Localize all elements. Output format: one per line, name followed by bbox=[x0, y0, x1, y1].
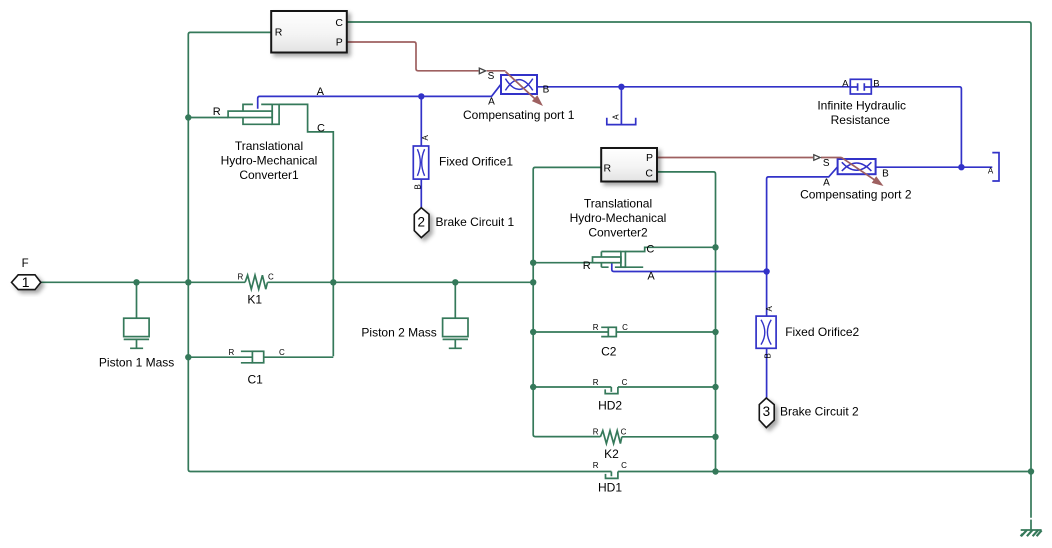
svg-text:Resistance: Resistance bbox=[831, 113, 891, 127]
svg-text:R: R bbox=[213, 106, 221, 118]
svg-text:A: A bbox=[823, 177, 830, 188]
svg-text:K2: K2 bbox=[604, 447, 619, 461]
svg-text:B: B bbox=[764, 353, 773, 358]
svg-text:C: C bbox=[317, 122, 325, 134]
svg-text:A: A bbox=[488, 97, 495, 108]
svg-text:Brake Circuit 2: Brake Circuit 2 bbox=[780, 404, 859, 418]
svg-text:F: F bbox=[22, 258, 29, 270]
svg-text:Fixed Orifice1: Fixed Orifice1 bbox=[439, 155, 513, 169]
svg-text:R: R bbox=[275, 27, 283, 39]
svg-text:C: C bbox=[645, 168, 653, 180]
svg-text:R: R bbox=[593, 378, 599, 387]
svg-text:Hydro-Mechanical: Hydro-Mechanical bbox=[570, 211, 667, 225]
svg-text:B: B bbox=[873, 78, 879, 89]
svg-text:A: A bbox=[765, 306, 774, 312]
svg-text:A: A bbox=[647, 270, 655, 282]
svg-text:C2: C2 bbox=[601, 345, 617, 359]
svg-text:B: B bbox=[414, 184, 423, 189]
svg-text:Converter1: Converter1 bbox=[239, 168, 299, 182]
svg-text:3: 3 bbox=[763, 404, 771, 419]
svg-text:C: C bbox=[646, 244, 654, 256]
svg-text:A: A bbox=[611, 114, 620, 120]
svg-text:Infinite Hydraulic: Infinite Hydraulic bbox=[817, 98, 906, 112]
svg-text:Compensating port 2: Compensating port 2 bbox=[800, 187, 912, 201]
svg-text:HD1: HD1 bbox=[598, 481, 622, 495]
svg-text:R: R bbox=[229, 348, 235, 357]
svg-text:A: A bbox=[317, 86, 325, 98]
svg-text:Piston 1 Mass: Piston 1 Mass bbox=[99, 355, 174, 369]
svg-text:Translational: Translational bbox=[235, 139, 303, 153]
svg-text:2: 2 bbox=[417, 215, 425, 230]
svg-text:Piston 2 Mass: Piston 2 Mass bbox=[361, 325, 436, 339]
svg-text:R: R bbox=[583, 260, 591, 272]
svg-text:Compensating port 1: Compensating port 1 bbox=[463, 108, 575, 122]
svg-text:R: R bbox=[604, 162, 612, 174]
svg-text:Converter2: Converter2 bbox=[588, 225, 648, 239]
svg-text:B: B bbox=[543, 84, 550, 95]
svg-text:C1: C1 bbox=[248, 373, 264, 387]
svg-text:B: B bbox=[882, 168, 889, 179]
svg-text:P: P bbox=[646, 152, 653, 164]
svg-text:C: C bbox=[621, 461, 627, 470]
svg-text:R: R bbox=[593, 461, 599, 470]
svg-text:R: R bbox=[593, 428, 599, 437]
svg-text:S: S bbox=[488, 71, 495, 82]
svg-text:R: R bbox=[238, 272, 244, 281]
svg-text:S: S bbox=[823, 158, 830, 169]
svg-text:C: C bbox=[279, 348, 285, 357]
svg-text:P: P bbox=[336, 37, 343, 49]
svg-text:K1: K1 bbox=[247, 292, 262, 306]
svg-text:C: C bbox=[335, 17, 343, 29]
svg-text:Brake Circuit 1: Brake Circuit 1 bbox=[436, 215, 515, 229]
svg-text:C: C bbox=[268, 272, 274, 281]
svg-text:C: C bbox=[622, 323, 628, 332]
svg-text:C: C bbox=[622, 378, 628, 387]
svg-text:R: R bbox=[593, 323, 599, 332]
svg-text:A: A bbox=[988, 166, 994, 175]
svg-text:HD2: HD2 bbox=[598, 399, 622, 413]
svg-text:A: A bbox=[421, 135, 430, 141]
svg-text:1: 1 bbox=[22, 274, 30, 290]
svg-text:Hydro-Mechanical: Hydro-Mechanical bbox=[221, 153, 318, 167]
svg-text:Fixed Orifice2: Fixed Orifice2 bbox=[785, 325, 859, 339]
svg-text:C: C bbox=[621, 428, 627, 437]
svg-text:A: A bbox=[842, 78, 849, 89]
svg-text:Translational: Translational bbox=[584, 196, 652, 210]
